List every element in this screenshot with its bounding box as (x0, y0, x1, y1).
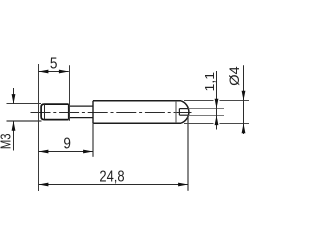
extension line, body top (for Ø4) (184, 100, 214, 102)
M3 bottom arrow (13, 121, 15, 151)
centerline (31, 112, 192, 114)
M3 extension line bottom (7, 120, 42, 122)
svg-text:9: 9 (63, 136, 71, 153)
extension line, shoulder x=93 (92, 123, 94, 157)
body top edge (93, 100, 181, 102)
M3 extension line top (7, 103, 42, 105)
dimension line Ø4 (243, 65, 245, 134)
M3 top arrow (13, 88, 15, 104)
dimension line 24,8 (39, 184, 189, 186)
extension line, body bottom (for Ø4) (184, 123, 214, 125)
svg-text:M3: M3 (0, 133, 14, 149)
neck bottom edge (69, 117, 93, 119)
thread chamfer line (44, 104, 46, 119)
thread outline (M3 stud, chamfered left end) (41, 104, 69, 120)
svg-text:24,8: 24,8 (99, 168, 124, 186)
dimension line 5 (39, 71, 69, 73)
extension line, slot bottom (for 1,1) (189, 115, 225, 117)
thread right face (68, 104, 70, 120)
slot top line (179, 108, 188, 110)
extension line, slot top (for 1,1) (189, 108, 225, 110)
slot bottom line (179, 114, 189, 116)
extension line, thread end x=69.3 (69, 65, 71, 120)
slot root line (178, 109, 180, 116)
extension line, tip end x=188 (187, 116, 189, 191)
neck top edge (69, 105, 93, 107)
domed tip arc (181, 101, 189, 123)
body bottom edge (93, 122, 181, 124)
svg-text:5: 5 (50, 55, 58, 72)
extension line, left datum x=38.8 (38, 64, 40, 191)
svg-text:1,1: 1,1 (203, 72, 217, 92)
dome tangency line (175, 101, 177, 123)
body left shoulder face (92, 101, 94, 123)
svg-text:Ø4: Ø4 (227, 66, 243, 86)
dimension line 9 (39, 151, 94, 153)
dimension line 1,1 (216, 71, 218, 108)
